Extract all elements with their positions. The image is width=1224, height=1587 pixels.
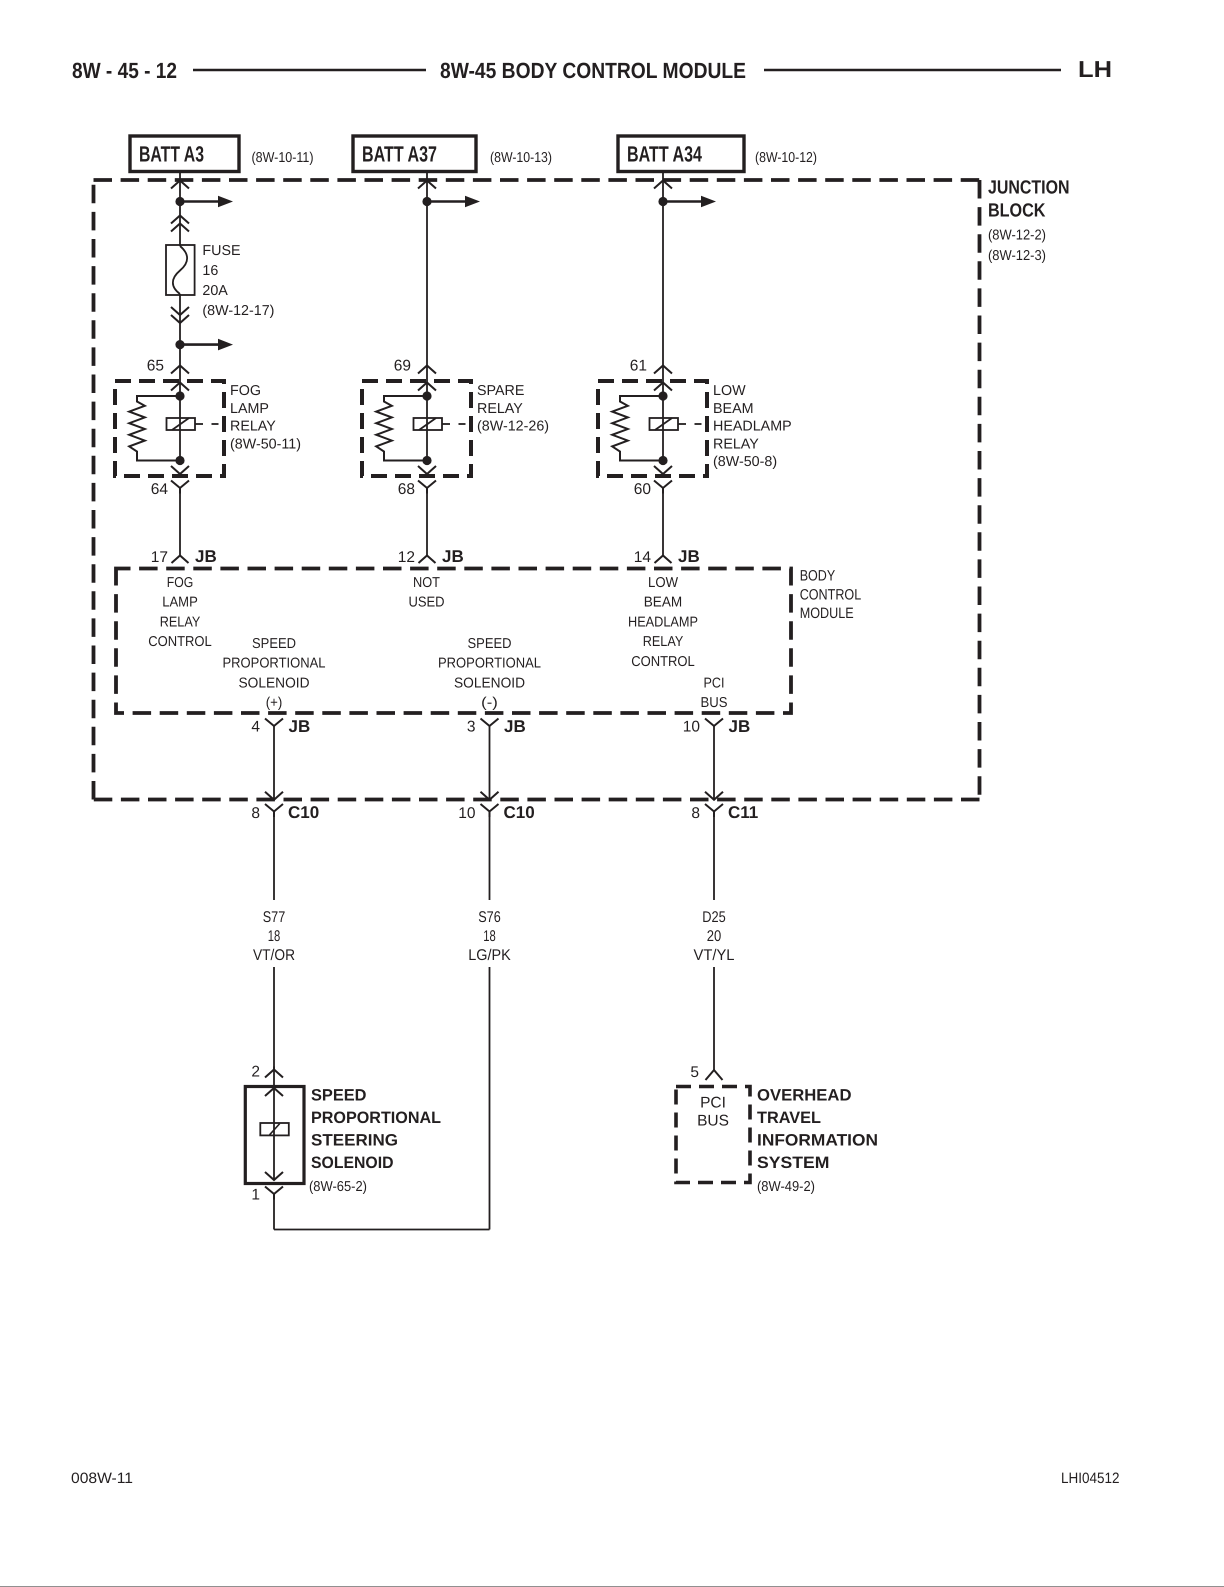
connector chevron pin 61: [654, 366, 672, 374]
svg-text:(8W-12-3): (8W-12-3): [988, 248, 1046, 264]
svg-text:3: 3: [467, 719, 476, 736]
wire through relay coil: [426, 396, 428, 461]
svg-text:NOT: NOT: [413, 575, 440, 591]
relay coil dashed lead: [678, 423, 686, 425]
svg-text:JB: JB: [729, 717, 751, 736]
svg-text:C10: C10: [288, 803, 319, 822]
svg-text:60: 60: [634, 481, 652, 498]
svg-text:18: 18: [483, 928, 496, 945]
svg-text:LG/PK: LG/PK: [468, 947, 511, 964]
wire D25 upper segment: [713, 817, 715, 900]
arrow into connector: [265, 792, 283, 800]
svg-text:JB: JB: [442, 547, 464, 566]
solenoid internal top chevron: [265, 1088, 283, 1096]
svg-text:1: 1: [251, 1187, 260, 1204]
solenoid internal bottom arrow: [265, 1172, 283, 1180]
body control module box (dashed): [116, 569, 791, 714]
relay contact resistor branch: [376, 396, 427, 461]
svg-text:SPEED: SPEED: [252, 636, 296, 652]
svg-text:SPEED: SPEED: [311, 1087, 367, 1105]
svg-text:2: 2: [251, 1064, 260, 1081]
svg-text:MODULE: MODULE: [800, 605, 854, 622]
svg-text:BEAM: BEAM: [644, 595, 683, 611]
svg-text:RELAY: RELAY: [643, 634, 684, 650]
wire through relay coil: [179, 396, 181, 461]
svg-text:61: 61: [630, 358, 647, 375]
svg-text:BUS: BUS: [697, 1113, 729, 1130]
double chevron up (fuse feed): [171, 216, 189, 224]
relay coil symbol: [167, 418, 196, 430]
svg-text:8: 8: [691, 805, 700, 822]
svg-text:10: 10: [458, 805, 476, 822]
svg-text:OVERHEAD: OVERHEAD: [757, 1087, 852, 1105]
svg-text:(8W-50-8): (8W-50-8): [713, 454, 777, 470]
relay coil dashed lead: [195, 423, 203, 425]
wire D25 lower segment: [713, 967, 715, 1070]
wire S76 lower segment: [489, 967, 491, 1230]
connector C10 symbol: [481, 804, 499, 817]
svg-text:VT/YL: VT/YL: [694, 947, 735, 964]
svg-text:(8W-50-11): (8W-50-11): [230, 436, 301, 452]
JB output connector pin 10: [705, 719, 723, 727]
svg-text:LOW: LOW: [648, 575, 678, 591]
wire S77 upper segment: [273, 817, 275, 900]
svg-text:20: 20: [707, 928, 722, 945]
relay coil symbol: [414, 418, 443, 430]
svg-text:S76: S76: [478, 909, 501, 926]
wire JB pin 3 to C10: [489, 726, 491, 800]
relay internal top chevron: [171, 383, 189, 391]
svg-text:JB: JB: [678, 547, 700, 566]
svg-text:LAMP: LAMP: [162, 595, 198, 611]
connector pin 60: [654, 481, 672, 494]
connector chevron pin 65: [171, 366, 189, 374]
svg-text:BATT A34: BATT A34: [627, 142, 703, 167]
svg-text:BODY: BODY: [800, 567, 836, 584]
svg-text:20A: 20A: [202, 283, 228, 299]
svg-text:SOLENOID: SOLENOID: [239, 675, 310, 691]
connector pin 68: [418, 481, 436, 494]
svg-text:4: 4: [251, 719, 260, 736]
wire S77 lower segment: [273, 967, 275, 1070]
svg-text:SOLENOID: SOLENOID: [454, 675, 525, 691]
arrow into connector: [705, 792, 723, 800]
svg-text:SPARE: SPARE: [477, 383, 524, 399]
svg-text:JUNCTION: JUNCTION: [988, 178, 1070, 199]
relay internal bottom chevron: [654, 466, 672, 474]
wire fuse to relay col1: [179, 294, 181, 396]
connector pin 64: [171, 481, 189, 494]
relay bottom node: [422, 456, 431, 465]
relay top node: [175, 391, 184, 400]
branch arrow col3: [663, 200, 702, 203]
wire solenoid pin 1 down: [273, 1200, 275, 1230]
svg-text:(8W-10-13): (8W-10-13): [490, 150, 552, 166]
relay K1 (FOG relay) dashed case: [115, 381, 224, 476]
svg-text:BATT A37: BATT A37: [362, 142, 437, 167]
svg-text:JB: JB: [504, 717, 526, 736]
wire BATT A37 feed down: [426, 172, 428, 397]
branch arrow below fuse: [180, 343, 219, 346]
svg-text:VT/OR: VT/OR: [253, 947, 295, 964]
svg-text:USED: USED: [408, 595, 444, 611]
svg-text:8: 8: [251, 805, 260, 822]
svg-text:68: 68: [398, 481, 415, 498]
solenoid coil symbol: [260, 1123, 289, 1135]
svg-text:69: 69: [394, 358, 411, 375]
splice node below fuse: [175, 340, 184, 349]
speed proportional steering solenoid box: [245, 1087, 304, 1184]
header rule right: [764, 69, 1061, 72]
relay internal top chevron: [418, 383, 436, 391]
battery feed box BATT A34: [618, 136, 744, 172]
off-page connector chevron at junction block edge col3: [654, 181, 672, 189]
relay internal top chevron: [654, 383, 672, 391]
wire solenoid return to S76: [274, 1229, 490, 1231]
svg-text:008W-11: 008W-11: [71, 1470, 133, 1487]
svg-text:(8W-10-12): (8W-10-12): [755, 150, 817, 166]
svg-text:FOG: FOG: [230, 383, 261, 399]
wire relay to BCM col3: [662, 494, 664, 556]
svg-text:FUSE: FUSE: [202, 243, 240, 259]
svg-text:PCI: PCI: [704, 675, 725, 691]
svg-text:8W - 45 - 12: 8W - 45 - 12: [72, 58, 177, 83]
wire BATT A34 feed down: [662, 172, 664, 397]
svg-text:(8W-12-17): (8W-12-17): [202, 303, 274, 319]
svg-text:HEADLAMP: HEADLAMP: [628, 614, 698, 630]
svg-text:(8W-12-2): (8W-12-2): [988, 228, 1046, 244]
off-page connector chevron at junction block edge col2: [418, 181, 436, 189]
branch arrow col1: [180, 200, 219, 203]
svg-text:LHI04512: LHI04512: [1061, 1470, 1120, 1487]
svg-text:(8W-12-26): (8W-12-26): [477, 419, 549, 435]
relay top node: [658, 391, 667, 400]
relay top node: [422, 391, 431, 400]
svg-text:SPEED: SPEED: [468, 636, 512, 652]
svg-text:C10: C10: [504, 803, 535, 822]
connector chevron pin 69: [418, 366, 436, 374]
fuse F16 20A: [166, 245, 195, 295]
svg-text:TRAVEL: TRAVEL: [757, 1109, 821, 1127]
JB connector symbol pin 17: [172, 556, 189, 564]
svg-text:5: 5: [690, 1064, 699, 1081]
overhead travel info system box (dashed): [676, 1087, 750, 1183]
relay bottom node: [658, 456, 667, 465]
svg-text:JB: JB: [289, 717, 311, 736]
svg-text:BUS: BUS: [701, 695, 728, 711]
svg-text:(+): (+): [266, 695, 283, 711]
svg-text:RELAY: RELAY: [477, 401, 523, 417]
relay K2 (SPARE relay) dashed case: [362, 381, 471, 476]
svg-text:BATT A3: BATT A3: [139, 142, 204, 167]
relay coil dashed lead: [442, 423, 450, 425]
svg-text:HEADLAMP: HEADLAMP: [713, 419, 792, 435]
svg-text:LH: LH: [1078, 56, 1112, 82]
relay coil symbol: [650, 418, 679, 430]
relay K3 (LOW relay) dashed case: [598, 381, 707, 476]
header rule left: [193, 69, 426, 72]
battery feed box BATT A37: [353, 136, 476, 172]
svg-text:8W-45 BODY CONTROL MODULE: 8W-45 BODY CONTROL MODULE: [440, 58, 746, 83]
relay contact resistor branch: [129, 396, 180, 461]
svg-text:CONTROL: CONTROL: [631, 654, 695, 670]
connector pin 1: [265, 1187, 283, 1200]
svg-text:(8W-49-2): (8W-49-2): [757, 1179, 815, 1195]
JB connector symbol pin 14: [655, 556, 672, 564]
svg-text:INFORMATION: INFORMATION: [757, 1132, 878, 1150]
JB connector symbol pin 12: [419, 556, 436, 564]
svg-text:PROPORTIONAL: PROPORTIONAL: [223, 656, 326, 672]
relay internal bottom chevron: [171, 466, 189, 474]
svg-text:SYSTEM: SYSTEM: [757, 1154, 830, 1172]
svg-text:BEAM: BEAM: [713, 401, 754, 417]
svg-text:18: 18: [268, 928, 281, 945]
double chevron down (fuse out): [171, 307, 189, 315]
svg-text:BLOCK: BLOCK: [988, 201, 1046, 222]
wire BATT A3 feed down: [179, 172, 181, 247]
off-page connector chevron at junction block edge col1: [171, 181, 189, 189]
svg-text:(8W-10-11): (8W-10-11): [252, 150, 314, 166]
svg-text:65: 65: [147, 358, 164, 375]
relay internal bottom chevron: [418, 466, 436, 474]
wire relay to BCM col2: [426, 494, 428, 556]
JB output connector pin 4: [265, 719, 283, 727]
connector C11 symbol: [705, 804, 723, 817]
svg-text:C11: C11: [728, 803, 758, 822]
splice node col1: [175, 197, 184, 206]
svg-text:LOW: LOW: [713, 383, 746, 399]
svg-text:STEERING: STEERING: [311, 1132, 398, 1150]
svg-text:D25: D25: [702, 909, 726, 926]
wire into solenoid: [273, 1067, 275, 1136]
svg-text:JB: JB: [195, 547, 217, 566]
connector chevron pin 2: [265, 1070, 283, 1078]
svg-text:CONTROL: CONTROL: [148, 634, 212, 650]
relay bottom node: [175, 456, 184, 465]
branch arrow col2: [427, 200, 466, 203]
svg-text:10: 10: [683, 719, 701, 736]
svg-text:LAMP: LAMP: [230, 401, 269, 417]
arrow into connector: [481, 792, 499, 800]
svg-text:RELAY: RELAY: [160, 614, 201, 630]
svg-text:14: 14: [634, 549, 652, 566]
svg-text:17: 17: [151, 549, 168, 566]
wire relay to BCM col1: [179, 494, 181, 556]
svg-text:(-): (-): [481, 695, 498, 711]
junction block boundary (dashed): [94, 178, 980, 182]
svg-text:SOLENOID: SOLENOID: [311, 1154, 394, 1172]
connector symbol pin 5: [706, 1070, 723, 1080]
svg-text:PROPORTIONAL: PROPORTIONAL: [438, 656, 541, 672]
wire S76 upper segment: [489, 817, 491, 900]
wire through relay coil: [662, 396, 664, 461]
svg-text:(8W-65-2): (8W-65-2): [309, 1179, 367, 1195]
relay contact resistor branch: [612, 396, 663, 461]
svg-text:16: 16: [202, 263, 218, 279]
svg-text:12: 12: [398, 549, 415, 566]
JB output connector pin 3: [481, 719, 499, 727]
splice node col3: [658, 197, 667, 206]
svg-text:PROPORTIONAL: PROPORTIONAL: [311, 1109, 441, 1127]
wire inside solenoid: [273, 1135, 275, 1180]
splice node col2: [422, 197, 431, 206]
svg-text:FOG: FOG: [167, 575, 194, 591]
wire JB pin 10 to C11: [713, 726, 715, 800]
wire JB pin 4 to C10: [273, 726, 275, 800]
connector C10 symbol: [265, 804, 283, 817]
svg-text:S77: S77: [263, 909, 286, 926]
svg-text:RELAY: RELAY: [713, 436, 759, 452]
svg-text:64: 64: [151, 481, 169, 498]
svg-text:CONTROL: CONTROL: [800, 586, 862, 603]
battery feed box BATT A3: [130, 136, 239, 172]
svg-text:PCI: PCI: [700, 1095, 726, 1112]
svg-text:RELAY: RELAY: [230, 419, 276, 435]
